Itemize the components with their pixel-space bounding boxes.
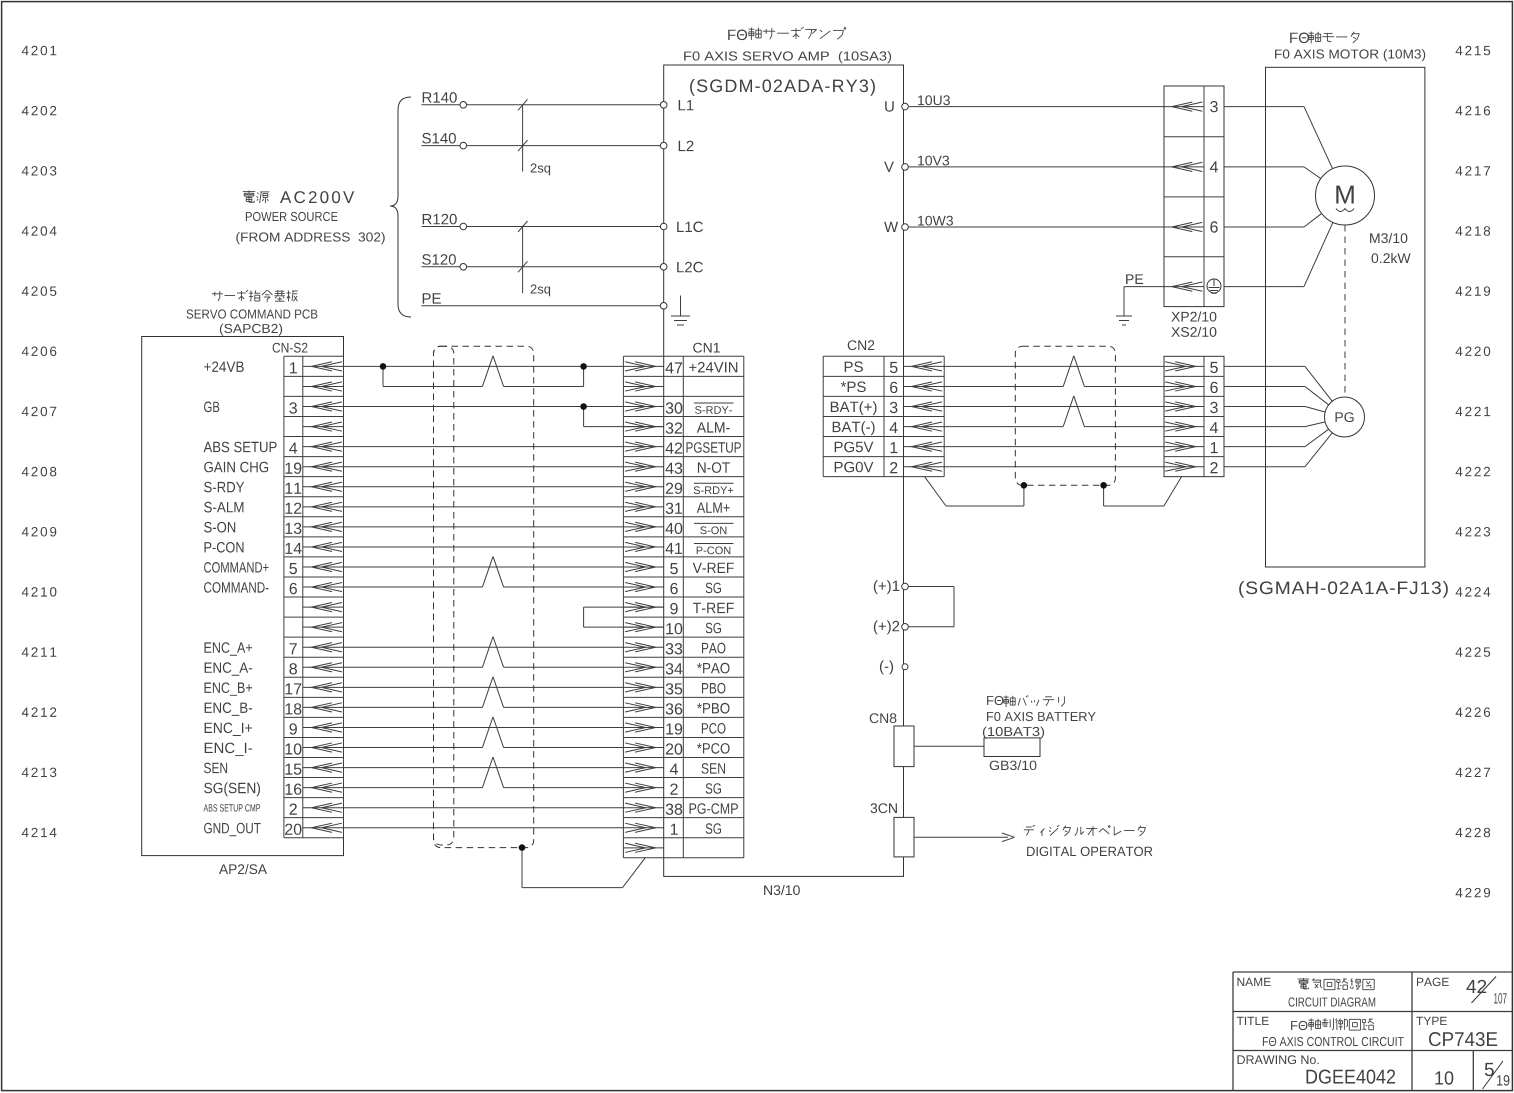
CN1 row 15 pin 34 *PAO — [623, 663, 729, 675]
CN-S2 row 18 ENC_I+ pin 9 — [205, 723, 344, 737]
CN-S2 row 20 SEN pin 15 — [204, 763, 344, 775]
motor model SGMAH-02A1A-FJ13 — [1239, 581, 1448, 598]
title block DRAWING cell — [1238, 1055, 1396, 1083]
CN-S2 row 14 ENC_A+ pin 7 — [205, 642, 344, 655]
connector CN2 grid — [823, 356, 944, 476]
CN-S2 row 9 P-CON pin 14 — [205, 542, 344, 554]
CN-S2 row 5 GAIN CHG pin 19 — [204, 462, 343, 474]
CN-S2 row 0 +24VB pin 1 — [204, 361, 343, 373]
pcb title english — [187, 309, 318, 318]
wire to encoder — [1224, 433, 1332, 467]
CN1 row 21 pin 2 SG — [623, 783, 721, 795]
CN-S2 row 23 GND_OUT pin 20 — [204, 823, 343, 837]
battery terminal (-) — [880, 660, 908, 674]
wire to motor — [1224, 214, 1321, 227]
CN1 row 14 pin 33 PAO — [623, 643, 725, 655]
digital operator label english — [1027, 847, 1152, 857]
CN-S2 row 13 blank pin - — [303, 623, 344, 632]
connector CN1 label — [693, 343, 720, 353]
battery block 10BAT3 — [984, 738, 1040, 757]
motor connector PE pin (earth symbol) — [1164, 279, 1221, 293]
terminal W wire 10W3 — [884, 216, 1164, 232]
wire CN-S2 to CN1 row 22 — [344, 807, 624, 809]
terminal L2C — [660, 262, 703, 273]
wire S120 — [422, 254, 661, 270]
servo command pcb box SAPCB2 — [142, 337, 344, 856]
dashed shaft link motor to PG encoder — [1344, 225, 1346, 397]
wire CN-S2 to CN1 row 21 — [344, 787, 624, 789]
wire to motor — [1224, 223, 1333, 287]
battery label japanese — [987, 695, 1064, 707]
connector CN8 — [870, 713, 914, 766]
CN1 row 5 pin 43 N-OT — [623, 462, 730, 474]
CN-S2 row 19 ENC_I- pin 10 — [205, 743, 344, 756]
motor M1 circle — [1316, 166, 1375, 225]
wire +24V pair return (row 1) — [383, 366, 584, 386]
wire CN2 to encoder row 2 — [944, 406, 1164, 408]
wire CN-S2 to CN1 row 16 — [344, 686, 624, 688]
wire CN2 to encoder row 4 — [944, 446, 1164, 448]
connector 3CN — [871, 803, 915, 857]
CN-S2 row 1 blank pin - — [303, 382, 344, 391]
pcb name SAPCB2 — [220, 324, 282, 336]
wire to motor — [1224, 107, 1332, 169]
title block TITLE cell — [1237, 1017, 1404, 1046]
CN-S2 row 8 S-ON pin 13 — [204, 522, 343, 534]
connector CN-S2 label — [273, 343, 308, 353]
servo amp title Japanese — [728, 27, 846, 40]
wire GB to ALM- (row 3) — [584, 407, 664, 427]
motor rating labels — [1370, 233, 1411, 263]
CN-S2 row 4 ABS SETUP pin 4 — [204, 442, 344, 454]
terminal L2 — [660, 141, 693, 152]
wire CN-S2 to CN1 row 4 — [344, 446, 624, 448]
CN-S2 row 22 ABS SETUP CMP pin 2 — [204, 803, 344, 815]
wire to motor — [1224, 167, 1320, 178]
wire to encoder — [1224, 366, 1332, 401]
wire CN2 to encoder row 3 — [944, 426, 1164, 428]
wire CN2 to encoder row 5 — [944, 466, 1164, 468]
CN-S2 row 15 ENC_A- pin 8 — [205, 662, 344, 676]
motor connector pin 4 — [1164, 161, 1218, 172]
motor connector labels XP2/10 XS2/10 — [1171, 311, 1216, 337]
CN1 row 11 pin 6 SG — [623, 582, 721, 594]
junction dot +24V right — [580, 363, 587, 370]
motor title japanese — [1290, 32, 1359, 44]
battery name 10BAT3 — [983, 727, 1044, 739]
connector CN2 label — [848, 340, 875, 350]
CN1 row 12 pin 9 T-REF — [623, 603, 733, 615]
shield 2 drain wire right — [1104, 477, 1182, 506]
cable shield 1 inner dashed — [434, 346, 454, 845]
POWER SOURCE label — [246, 212, 338, 221]
wire CN-S2 to CN1 row 8 — [344, 526, 624, 528]
wire CN-S2 to CN1 row 9 — [344, 546, 624, 548]
wire to encoder — [1224, 407, 1325, 413]
cable shield 2 dashed — [1015, 346, 1115, 485]
wire CN-S2 to CN1 row 14 — [344, 646, 624, 648]
motor connector XP2/10 XS2/10 block — [1164, 86, 1224, 307]
wire CN-S2 to CN1 row 23 — [344, 827, 624, 829]
servo amp U1 box (10SA3) — [664, 65, 904, 876]
wire loop T-REF/SG (rows 12-13) — [584, 607, 664, 627]
wire CN-S2 to CN1 row 5 — [344, 466, 624, 468]
cable shield 1 outer dashed — [434, 346, 534, 847]
power source label 電源 AC200V — [243, 191, 354, 204]
wire CN2 to encoder row 1 — [944, 385, 1164, 387]
CN1 row 1 pin - blank — [623, 382, 663, 391]
CN2 row *PS pin 6 — [841, 382, 944, 394]
pcb bottom label AP2/SA — [219, 864, 267, 874]
CN1 row 22 pin 38 PG-CMP — [623, 803, 738, 815]
junction dot +24V left — [380, 363, 387, 370]
label N3/10 — [764, 885, 800, 895]
wire CN-S2 to CN1 row 15 — [344, 666, 624, 668]
CN-S2 row 10 COMMAND+ pin 5 — [204, 562, 343, 574]
title block TYPE cell — [1416, 1017, 1497, 1046]
CN-S2 row 3 blank pin - — [303, 422, 344, 431]
FROM ADDRESS 302 label — [236, 232, 384, 244]
wire S140 — [422, 133, 661, 149]
CN1 row 23 pin 1 SG — [623, 823, 721, 835]
shield 2 drain wire left — [925, 477, 1024, 506]
ground symbol at motor PE — [1116, 287, 1132, 325]
CN2 row PG0V pin 2 — [835, 462, 945, 474]
wire to encoder — [1224, 422, 1325, 427]
power source brace — [390, 97, 411, 317]
twisted pair symbols cable 1 — [482, 356, 503, 788]
CN1 row 17 pin 36 *PBO — [623, 703, 729, 715]
motor title english — [1275, 49, 1425, 61]
CN-S2 row 16 ENC_B+ pin 17 — [205, 682, 344, 695]
wire CN-S2 to CN1 row 18 — [344, 726, 624, 728]
wire size marker 2sq upper — [518, 99, 550, 175]
title block PAGE cell — [1417, 977, 1507, 1004]
title block sheet number 10 — [1435, 1071, 1453, 1085]
CN-S2 row 2 GB pin 3 — [204, 402, 343, 414]
wire CN-S2 to CN1 row 7 — [344, 506, 624, 508]
wire CN2 to encoder row 0 — [944, 365, 1164, 367]
CN-S2 row 17 ENC_B- pin 18 — [205, 702, 344, 716]
wire CN-S2 to CN1 row 6 — [344, 486, 624, 488]
terminal U wire 10U3 — [885, 95, 1164, 111]
junction dot shield 2 right — [1100, 482, 1107, 489]
terminal V wire 10V3 — [884, 156, 1164, 172]
CN-S2 row 6 S-RDY pin 11 — [204, 482, 343, 494]
battery terminal (+)2 — [874, 620, 909, 634]
terminal PE circle — [660, 303, 667, 310]
row address labels left — [22, 46, 57, 837]
wire R120 — [422, 214, 661, 230]
CN1 row 18 pin 19 PCO — [623, 723, 725, 735]
wire CN-S2 to CN1 row 19 — [344, 747, 624, 749]
wire CN-S2 to CN1 row 2 — [344, 406, 624, 408]
motor connector pin 6 — [1164, 221, 1218, 232]
wire to encoder — [1224, 387, 1329, 405]
CN1 row 9 pin 41 P-CON — [623, 542, 733, 554]
CN1 row 6 pin 29 S-RDY+ — [623, 482, 733, 494]
CN2 row PS pin 5 — [845, 361, 945, 373]
CN1 row 4 pin 42 PGSETUP — [623, 442, 741, 454]
CN1 row 19 pin 20 *PCO — [623, 743, 729, 755]
junction dot GB — [580, 403, 587, 410]
wire 3CN to digital operator with arrow — [914, 833, 1015, 842]
wire CN-S2 to CN1 row 0 — [344, 365, 624, 367]
digital operator label japanese — [1024, 825, 1146, 836]
wire CN-S2 to CN1 row 17 — [344, 706, 624, 708]
wire size marker 2sq lower — [518, 221, 550, 296]
encoder connector pin 3 — [1164, 402, 1218, 413]
title block grid — [1233, 972, 1512, 1091]
battery terminal (+)1 — [874, 580, 909, 594]
wire R140 — [422, 92, 661, 108]
motor connector pin 3 — [1164, 101, 1218, 112]
encoder connector pin 2 — [1164, 462, 1218, 473]
encoder PG circle — [1325, 397, 1365, 437]
CN2 row PG5V pin 1 — [835, 442, 945, 453]
connector CN-S2 grid — [284, 356, 344, 837]
battery label english — [987, 712, 1096, 721]
title block NAME cell — [1238, 978, 1376, 1007]
wire CN-S2 to CN1 row 11 — [344, 586, 624, 588]
CN1 row 2 pin 30 S-RDY- — [623, 402, 733, 414]
wire PE — [422, 293, 661, 306]
CN-S2 row 12 blank pin - — [303, 603, 344, 612]
encoder connector pin 4 — [1164, 422, 1218, 433]
CN1 row 10 pin 5 V-REF — [623, 562, 733, 574]
encoder connector pin 6 — [1164, 382, 1218, 393]
CN1 row 7 pin 31 ALM+ — [623, 502, 729, 514]
servo amp title english — [684, 51, 891, 63]
ground symbol inside amp — [671, 296, 690, 326]
wire CN-S2 to CN1 row 20 — [344, 767, 624, 769]
twisted pair symbols cable 2 — [1063, 356, 1084, 427]
wire PE to motor connector — [1124, 274, 1164, 286]
motor box (10M3) — [1266, 67, 1425, 567]
battery loop wire — [908, 587, 954, 627]
pcb title japanese サーボ指令基板 — [212, 290, 298, 302]
CN-S2 row 7 S-ALM pin 12 — [204, 502, 343, 514]
CN1 row 16 pin 35 PBO — [623, 683, 725, 695]
terminal L1 — [660, 100, 693, 110]
battery label GB3/10 — [990, 760, 1037, 770]
CN1 row 3 pin 32 ALM- — [623, 422, 729, 434]
CN1 row 20 pin 4 SEN — [623, 763, 725, 775]
CN1 row 8 pin 40 S-ON — [623, 522, 733, 534]
wire to encoder — [1224, 429, 1329, 446]
CN1 row 24 pin - blank — [623, 843, 663, 852]
encoder connector block grid — [1164, 356, 1224, 476]
wire CN8 to battery — [914, 745, 984, 747]
CN-S2 row 21 SG(SEN) pin 16 — [204, 782, 343, 796]
CN2 row BAT(-) pin 4 — [833, 421, 945, 435]
encoder connector pin 5 — [1164, 362, 1218, 373]
connector CN1 grid — [623, 356, 743, 858]
encoder connector pin 1 — [1164, 442, 1218, 453]
CN1 row 0 pin 47 +24VIN — [623, 362, 737, 374]
title block sheet 5/19 — [1483, 1061, 1510, 1089]
shield 1 drain wire — [522, 848, 645, 888]
row address labels right — [1456, 46, 1491, 898]
junction dot shield 2 left — [1021, 482, 1028, 489]
CN1 row 13 pin 10 SG — [623, 623, 721, 635]
wire CN-S2 to CN1 row 10 — [344, 566, 624, 568]
CN-S2 row 11 COMMAND- pin 6 — [204, 582, 343, 594]
servo amp model SGDM-02ADA-RY3 — [690, 79, 875, 96]
terminal L1C — [660, 222, 703, 233]
junction dot shield 1 — [519, 844, 526, 851]
CN2 row BAT(+) pin 3 — [831, 401, 944, 415]
